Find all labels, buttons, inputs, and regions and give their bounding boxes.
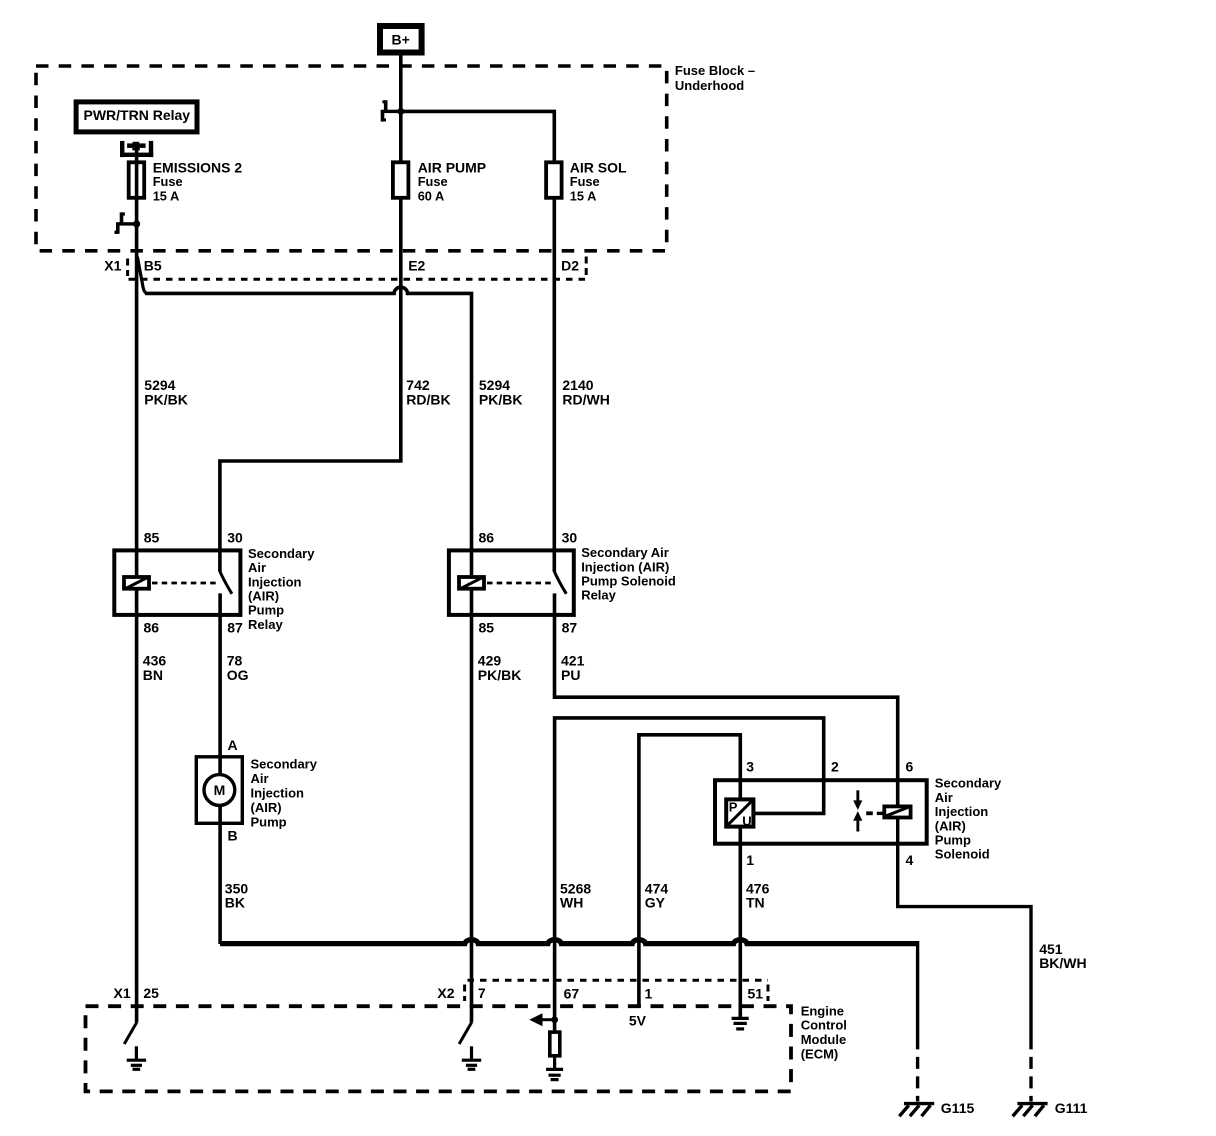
AIR pump solenoid box	[715, 780, 927, 844]
PWR/TRN Relay label box	[76, 102, 197, 132]
power symbol B+ box	[380, 26, 422, 53]
svg-text:85: 85	[479, 620, 495, 636]
svg-text:86: 86	[144, 620, 160, 636]
relay K2 coil-to-switch dashed link	[487, 582, 553, 585]
svg-text:87: 87	[227, 620, 243, 636]
svg-text:30: 30	[562, 529, 578, 545]
chassis ground G115	[899, 1104, 934, 1117]
connector C2 dotted line (X2 row at ECM)	[465, 980, 768, 1001]
wire 2140 RD/WH from AIR SOL fuse D2 to relay K2 switch	[552, 199, 556, 571]
svg-text:A: A	[228, 737, 238, 753]
svg-text:86: 86	[479, 529, 495, 545]
relay K2 Secondary Air Injection Pump Solenoid Relay box	[449, 550, 574, 615]
signal arrow at ECM pin 67	[529, 1013, 558, 1026]
relay K2 switch arm	[554, 571, 566, 594]
wire branch to AIR SOL fuse	[401, 111, 555, 161]
svg-text:G115: G115	[941, 1100, 975, 1116]
svg-text:D2: D2	[561, 258, 579, 274]
solenoid coil	[884, 806, 910, 817]
svg-text:Fuse15 A: Fuse15 A	[570, 174, 600, 203]
ground symbol at ECM pin 51	[732, 1018, 749, 1029]
svg-text:6: 6	[906, 758, 914, 774]
ground symbol inside ECM at X2-7	[462, 1046, 481, 1069]
svg-text:AIR PUMP: AIR PUMP	[418, 160, 486, 176]
svg-text:436BN: 436BN	[143, 653, 167, 683]
fuse AIR SOL 15 A	[546, 162, 562, 198]
svg-text:421PU: 421PU	[561, 653, 585, 683]
svg-text:5294PK/BK: 5294PK/BK	[479, 377, 523, 407]
svg-text:Fuse Block –Underhood: Fuse Block –Underhood	[675, 63, 755, 93]
connector hook symbol at B+ branch	[381, 100, 401, 121]
fuse EMISSIONS 2 15 A	[129, 162, 145, 198]
relay K1 switch arm	[220, 571, 232, 594]
connector C1 dotted line (X1/B5/E2/D2)	[128, 257, 587, 280]
svg-text:M: M	[214, 782, 226, 798]
wire 429 PK/BK from relay K2 coil to ECM X2-7	[470, 589, 474, 1023]
ground symbol inside ECM at X1-25	[127, 1046, 146, 1069]
wire 474 GY / 476 TN from ECM pin 1 to solenoid pin 3 and from pin 1 to ECM pin 51	[639, 735, 740, 1017]
svg-text:G111: G111	[1055, 1100, 1088, 1116]
wire 436 BN from relay K1 coil to ECM X1-25	[135, 589, 139, 1023]
AIR pump box	[196, 757, 242, 824]
ECM dashed box	[86, 1006, 792, 1091]
svg-text:67: 67	[564, 985, 580, 1001]
junction dot at B+ branch	[397, 108, 404, 115]
svg-text:AIR SOL: AIR SOL	[570, 160, 627, 176]
svg-text:85: 85	[144, 529, 160, 545]
svg-text:78OG: 78OG	[227, 653, 249, 683]
svg-text:E2: E2	[408, 257, 425, 273]
svg-text:350BK: 350BK	[225, 880, 249, 910]
wire to ground G115	[916, 941, 919, 1102]
svg-text:742RD/BK: 742RD/BK	[406, 377, 450, 407]
svg-text:EMISSIONS 2: EMISSIONS 2	[153, 160, 243, 176]
svg-text:SecondaryAirInjection(AIR)Pump: SecondaryAirInjection(AIR)Pump	[251, 757, 318, 830]
relay K1 coil-to-switch dashed link	[152, 582, 219, 585]
svg-text:PWR/TRN Relay: PWR/TRN Relay	[84, 107, 191, 123]
svg-text:P: P	[729, 799, 738, 814]
resistor inside ECM at pin 67	[550, 1032, 560, 1056]
svg-text:B5: B5	[144, 257, 162, 273]
svg-text:451BK/WH: 451BK/WH	[1039, 941, 1086, 971]
svg-text:SecondaryAirInjection(AIR)Pump: SecondaryAirInjection(AIR)PumpRelay	[248, 546, 315, 632]
connector terminal jog at B5	[137, 257, 146, 294]
connector hook symbol with splice dot below EMISSIONS 2 fuse	[115, 212, 141, 234]
svg-text:SecondaryAirInjection(AIR)Pump: SecondaryAirInjection(AIR)PumpSolenoid	[935, 776, 1002, 862]
svg-text:4: 4	[906, 852, 914, 868]
svg-text:2140RD/WH: 2140RD/WH	[562, 377, 609, 407]
relay K1 Secondary Air Injection Pump Relay box	[114, 550, 240, 615]
ground symbol below resistor at pin 67	[546, 1058, 563, 1080]
connector bracket terminal under PWR/TRN relay	[120, 141, 153, 157]
svg-text:87: 87	[562, 620, 578, 636]
wire 742 RD/BK from AIR PUMP fuse E2 to relay K1 switch	[220, 199, 401, 571]
svg-text:5V: 5V	[629, 1012, 647, 1028]
svg-text:Fuse15 A: Fuse15 A	[153, 174, 183, 203]
svg-text:Secondary AirInjection (AIR)Pu: Secondary AirInjection (AIR)Pump Solenoi…	[581, 545, 676, 603]
wire 421 PU from relay K2 switch to solenoid pin 6	[555, 593, 898, 807]
wire from B+ down to AIR PUMP fuse	[399, 55, 403, 161]
svg-text:7: 7	[478, 985, 486, 1001]
svg-text:Fuse60 A: Fuse60 A	[418, 174, 448, 203]
wire 5294 PK/BK from PWR/TRN relay through EMISSIONS 2 fuse to relay K1 coil	[135, 146, 139, 577]
svg-text:EngineControlModule(ECM): EngineControlModule(ECM)	[801, 1003, 847, 1061]
wire 78 OG / 350 BK from relay K1 switch through AIR pump to ground bus	[218, 593, 222, 944]
svg-text:X1: X1	[104, 257, 121, 273]
svg-text:474GY: 474GY	[645, 880, 669, 910]
svg-text:5268WH: 5268WH	[560, 880, 591, 910]
wire 5268 WH from solenoid pin 2 to ECM pin 67	[555, 718, 824, 1031]
wire 5294 PK/BK branch from B5 to relay K2 coil (hops over E2 wire)	[145, 287, 472, 577]
svg-text:B: B	[228, 827, 238, 843]
fuse block underhood dashed box	[36, 66, 667, 251]
ground bus wire 350 BK (thick, humps over crossing wires)	[220, 940, 918, 944]
svg-text:U: U	[742, 814, 751, 829]
wire 451 BK/WH from solenoid pin 4 to ground G111	[898, 816, 1031, 1102]
svg-text:X2: X2	[437, 985, 454, 1001]
svg-text:1: 1	[645, 986, 653, 1002]
chassis ground G111	[1013, 1104, 1048, 1117]
ECM driver switch arm at X2-7	[459, 1022, 472, 1044]
fuse AIR PUMP 60 A	[393, 162, 409, 198]
svg-text:X1: X1	[114, 985, 131, 1001]
svg-text:1: 1	[746, 852, 754, 868]
svg-text:3: 3	[746, 758, 754, 774]
svg-text:476TN: 476TN	[746, 880, 770, 910]
solenoid valve arrows	[853, 790, 884, 831]
svg-text:429PK/BK: 429PK/BK	[478, 653, 522, 683]
pressure/vacuum sensor P/U box	[726, 799, 753, 826]
ECM driver switch arm at X1-25	[124, 1022, 137, 1044]
relay K2 coil	[459, 577, 484, 589]
svg-text:2: 2	[831, 758, 839, 774]
svg-text:30: 30	[227, 529, 243, 545]
AIR pump motor circle M	[204, 775, 235, 806]
svg-text:51: 51	[748, 986, 764, 1002]
svg-text:5294PK/BK: 5294PK/BK	[144, 377, 188, 407]
svg-text:B+: B+	[392, 32, 410, 48]
svg-text:25: 25	[143, 985, 159, 1001]
relay K1 coil	[124, 577, 149, 589]
